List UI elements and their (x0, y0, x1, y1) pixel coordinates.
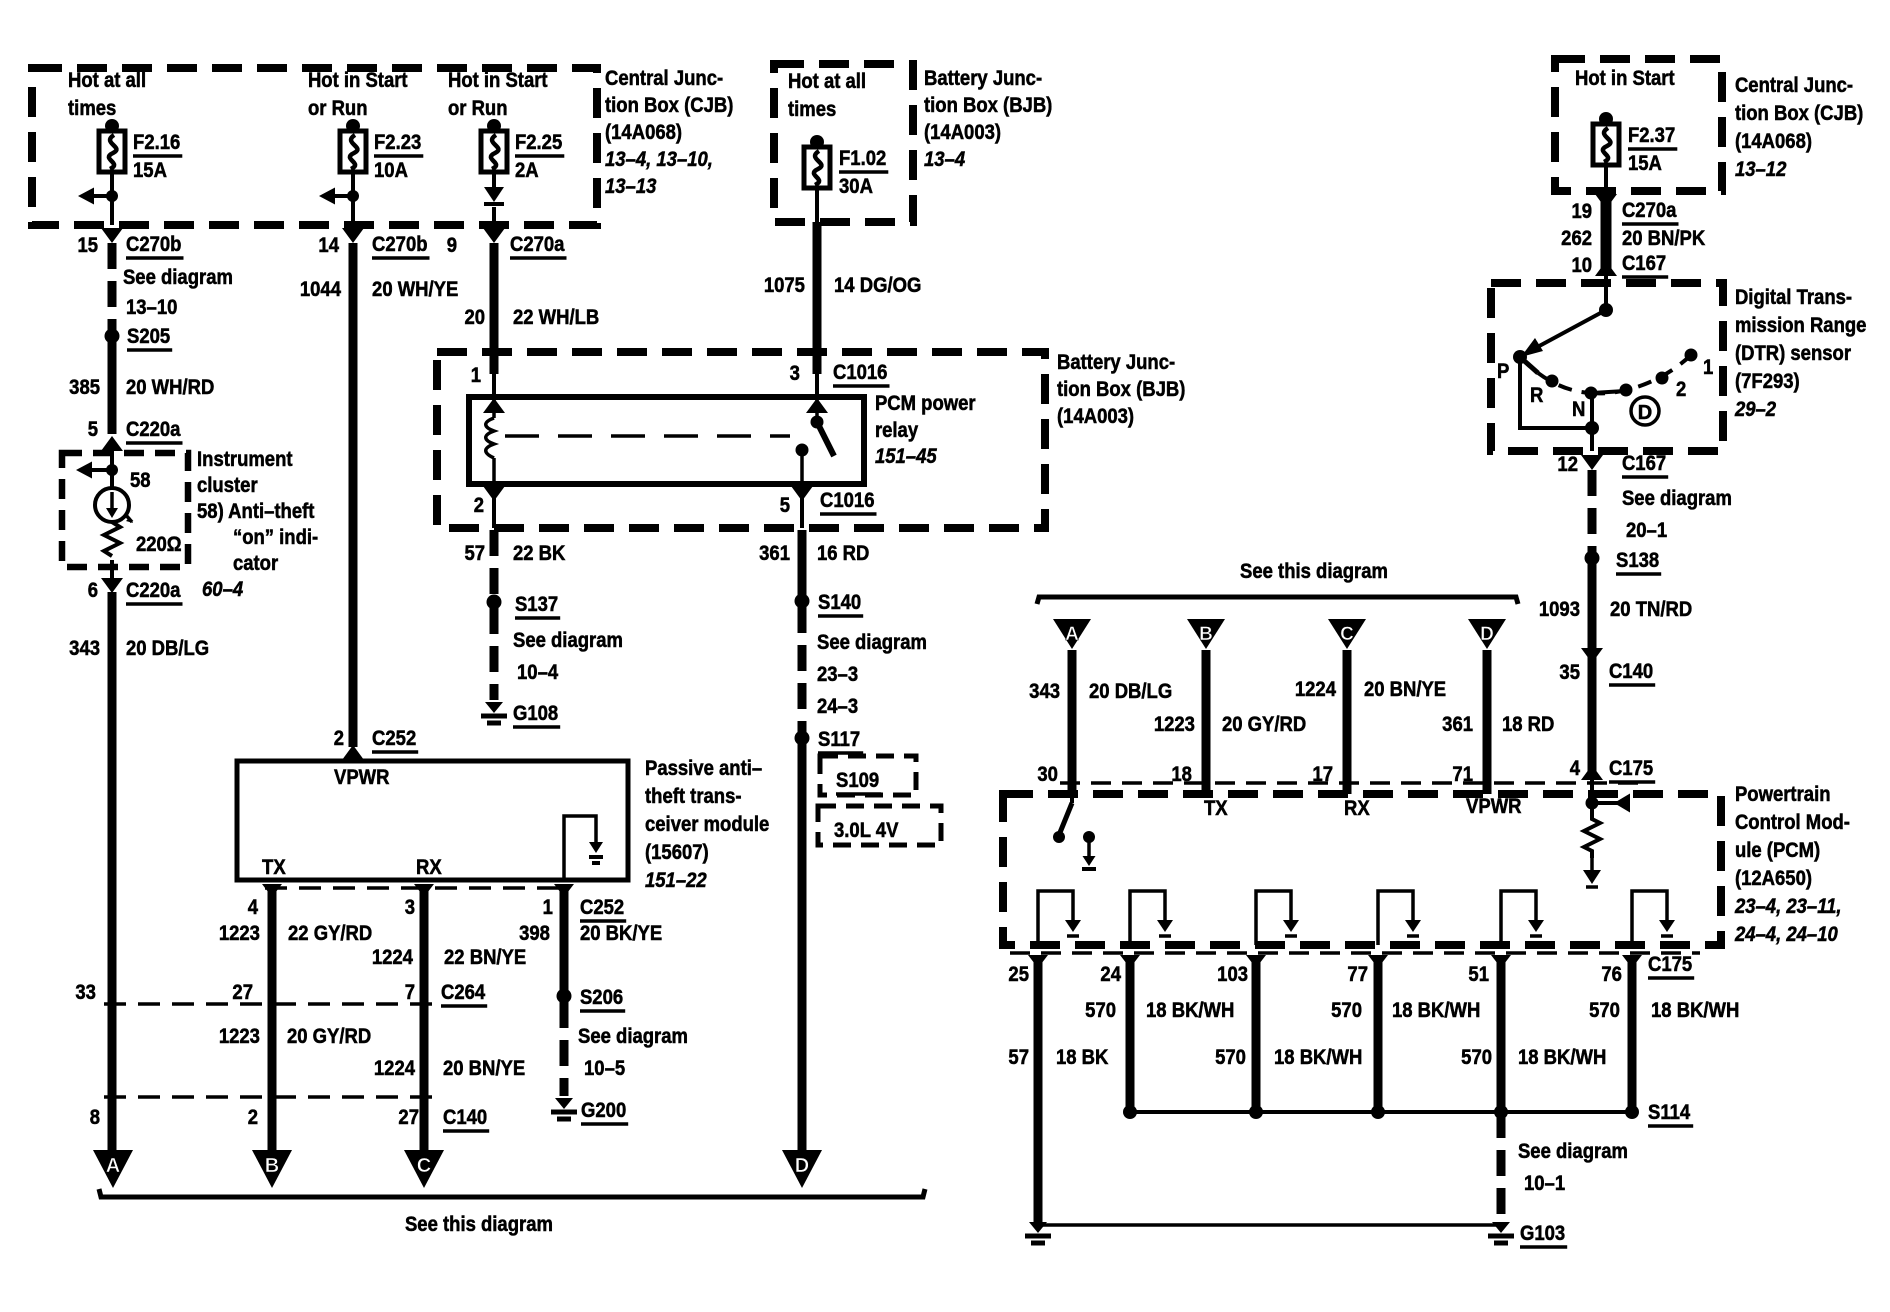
Central Junction Box (CJB) dashed box (32, 68, 597, 225)
wire 262 20 BN/PK: CJB2 to DTR (1601, 196, 1612, 276)
svg-text:(7F293): (7F293) (1735, 370, 1800, 394)
svg-text:20 GY/RD: 20 GY/RD (1222, 713, 1306, 737)
svg-text:77: 77 (1347, 963, 1368, 987)
svg-text:20 TN/RD: 20 TN/RD (1610, 598, 1692, 622)
svg-text:See this diagram: See this diagram (1240, 560, 1388, 584)
svg-text:ceiver module: ceiver module (645, 813, 769, 837)
svg-text:F2.37: F2.37 (1628, 124, 1675, 148)
connector C175 pin 51 (collar) (1491, 955, 1511, 968)
wire 343 20 DB/LG: cluster to net A (108, 592, 117, 1150)
svg-text:Hot in Start: Hot in Start (308, 69, 408, 93)
svg-text:2: 2 (334, 727, 344, 751)
svg-text:1: 1 (543, 896, 553, 920)
svg-text:1: 1 (1703, 356, 1713, 380)
net A (arrow into PCM harness) (1053, 619, 1091, 649)
svg-text:220Ω: 220Ω (136, 533, 182, 557)
wire 57 18 BK: pin 25 to G103 line (1034, 955, 1043, 1222)
svg-text:Hot in Start: Hot in Start (1575, 67, 1675, 91)
PCM power relay box (469, 397, 864, 484)
label: 361 16 RD (759, 542, 869, 566)
svg-text:1075: 1075 (764, 274, 805, 298)
svg-text:570: 570 (1331, 999, 1362, 1023)
svg-text:1224: 1224 (374, 1057, 416, 1081)
svg-text:103: 103 (1217, 963, 1248, 987)
svg-text:S206: S206 (580, 986, 623, 1010)
svg-text:Hot in Start: Hot in Start (448, 69, 548, 93)
connector C270b pin 14 (collar) (342, 228, 364, 243)
DTR selector arc (dashed through contacts) (1520, 357, 1591, 393)
svg-text:262: 262 (1561, 227, 1592, 251)
connector C175 pin 4 (collar) (1581, 765, 1603, 780)
svg-text:13–4, 13–10,: 13–4, 13–10, (605, 148, 713, 172)
label: Powertrain Control Module (PCM) (12A650) 23-4,23-11,24-4,24-10 (1734, 783, 1850, 947)
label: 15 C270b See diagram 13-10 (77, 233, 232, 320)
connector C140 pin 35 (collar) (1581, 648, 1603, 663)
svg-text:20 GY/RD: 20 GY/RD (287, 1025, 371, 1049)
PCM internal resistor ground arrow (1590, 858, 1594, 872)
wire: DTR entry to rotor junction (1604, 276, 1608, 310)
svg-text:3.0L 4V: 3.0L 4V (834, 819, 899, 843)
svg-text:cator: cator (233, 552, 278, 576)
svg-text:4: 4 (248, 896, 259, 920)
diode CR (in CJB) (484, 187, 504, 204)
svg-text:151–45: 151–45 (875, 445, 937, 469)
svg-text:tion Box (CJB): tion Box (CJB) (1735, 102, 1863, 126)
connector C140 dashed line (104, 1095, 436, 1099)
svg-text:D: D (1638, 402, 1652, 424)
label: Digital Transmission Range (DTR) sensor (7F293) 29-2 (1734, 286, 1866, 422)
net C (bottom arrow) (404, 1150, 444, 1188)
wire 361 18 RD: net D to PCM pin 71 (VPWR) (1483, 650, 1492, 794)
splice S205 (105, 329, 120, 344)
svg-text:theft trans-: theft trans- (645, 785, 742, 809)
net B (bottom arrow) (252, 1150, 292, 1188)
svg-text:570: 570 (1589, 999, 1620, 1023)
svg-text:RX: RX (416, 856, 442, 880)
wire: pin 5 into cluster (110, 451, 114, 488)
label: 1075 14 DG/OG (764, 274, 922, 298)
label: See diagram 10-1 (1518, 1140, 1628, 1196)
svg-text:398: 398 (519, 922, 550, 946)
svg-text:1223: 1223 (1154, 713, 1195, 737)
svg-text:Digital Trans-: Digital Trans- (1735, 286, 1852, 310)
relay pin 3 (arrow into relay) + C1016 (806, 398, 828, 413)
3.0L 4V dashed tag box (818, 806, 941, 845)
connector C270a pin 19 (collar) (1595, 194, 1617, 209)
svg-text:9: 9 (447, 234, 457, 258)
Passive anti-theft transceiver module box (237, 761, 628, 880)
svg-text:1224: 1224 (1295, 678, 1337, 702)
svg-text:Instrument: Instrument (197, 448, 293, 472)
label: Battery Junction Box (BJB) (14A003) 13-4 (924, 67, 1052, 172)
svg-text:Central Junc-: Central Junc- (1735, 74, 1853, 98)
label: 398 20 BK/YE (519, 922, 662, 946)
svg-text:C270a: C270a (1622, 199, 1677, 223)
connector C175 pin 76 (collar) (1622, 955, 1642, 968)
svg-text:6: 6 (88, 579, 98, 603)
wire 1224 20 BN/YE: net C to PCM pin 17 (RX) (1343, 650, 1352, 794)
svg-text:C1016: C1016 (833, 361, 887, 385)
label: 1044 20 WH/YE (300, 278, 458, 302)
svg-text:VPWR: VPWR (1466, 795, 1522, 819)
PCM internal ground loop 2 (1130, 891, 1165, 945)
svg-text:30: 30 (1037, 763, 1058, 787)
wire 570 18 BK/WH: pin 77 to S114 (1374, 955, 1383, 1112)
svg-text:3: 3 (405, 896, 415, 920)
splice S137 (487, 595, 502, 610)
svg-text:13–12: 13–12 (1735, 158, 1786, 182)
net D (bottom arrow) (782, 1150, 822, 1188)
svg-text:S140: S140 (818, 591, 861, 615)
connector C175 dashed line over PCM (1060, 781, 1640, 785)
svg-text:mission Range: mission Range (1735, 314, 1866, 338)
svg-text:Passive anti–: Passive anti– (645, 757, 762, 781)
svg-text:22 BN/YE: 22 BN/YE (444, 946, 526, 970)
wire: P contact to common (1520, 357, 1592, 428)
svg-text:S114: S114 (1648, 1101, 1691, 1125)
svg-text:F2.25: F2.25 (515, 131, 562, 155)
DTR contact N (1585, 387, 1598, 400)
PATS internal ground hook (564, 816, 596, 880)
svg-text:22 GY/RD: 22 GY/RD (288, 922, 372, 946)
svg-text:570: 570 (1085, 999, 1116, 1023)
wire: resistor to pin 6 (110, 560, 114, 578)
svg-text:(15607): (15607) (645, 841, 709, 865)
svg-text:18 RD: 18 RD (1502, 713, 1554, 737)
svg-text:C270b: C270b (372, 233, 427, 257)
labels: PCM bottom pins 25 24 103 77 51 76 C175 (1008, 953, 1694, 987)
wire: S117 to net D (798, 738, 807, 1150)
svg-text:4: 4 (1570, 757, 1581, 781)
label: Passive anti-theft transceiver module (15607) 151-22 (645, 757, 769, 893)
svg-text:10–5: 10–5 (584, 1057, 625, 1081)
DTR contact 1 (1685, 349, 1698, 362)
label: 14 C270b (318, 233, 429, 258)
svg-text:C1016: C1016 (820, 489, 874, 513)
wire 1224 22 BN/YE: RX to C264 (420, 884, 429, 1004)
fuse F2.16 15A (99, 119, 182, 182)
label: See diagram 20-1 (1622, 487, 1732, 543)
PCM internal ground loop 1 (1038, 891, 1073, 945)
label: 57 22 BK (464, 542, 565, 566)
label: See diagram 10-4 (513, 629, 623, 685)
svg-text:19: 19 (1571, 200, 1592, 224)
svg-text:10: 10 (1571, 254, 1592, 278)
PCM internal ground stub (1083, 831, 1095, 843)
svg-text:14 DG/OG: 14 DG/OG (834, 274, 921, 298)
svg-text:See diagram: See diagram (817, 631, 927, 655)
svg-text:1224: 1224 (372, 946, 414, 970)
fuse F2.25 2A (481, 119, 564, 182)
svg-text:See diagram: See diagram (513, 629, 623, 653)
wire 1093 20 TN/RD: S138 to C140 (1588, 558, 1597, 660)
label: 343 20 DB/LG (69, 637, 209, 661)
svg-text:R: R (1530, 384, 1544, 408)
ground G103 (1492, 1222, 1510, 1233)
DTR contact P (1513, 350, 1527, 364)
label: PCM power relay 151-45 (875, 392, 976, 469)
wire: F2.37 to CJB2 exit (1604, 165, 1608, 191)
svg-text:(14A068): (14A068) (605, 121, 682, 145)
fuse F2.37 15A (1593, 112, 1677, 175)
PCM internal ground loop 6 (1632, 891, 1667, 945)
connector C175 pin 24 (collar) (1120, 955, 1140, 968)
label: Central Junction Box (CJB) (14A068) 13-12 (1735, 74, 1863, 182)
svg-text:23–4, 23–11,: 23–4, 23–11, (1734, 895, 1841, 919)
svg-text:(14A068): (14A068) (1735, 130, 1812, 154)
svg-text:times: times (788, 98, 836, 122)
svg-text:(14A003): (14A003) (1057, 405, 1134, 429)
svg-text:D: D (795, 1155, 809, 1177)
wire: branch to other circuits (left arrow) (76, 462, 112, 479)
svg-text:(DTR) sensor: (DTR) sensor (1735, 342, 1851, 366)
svg-text:Control Mod-: Control Mod- (1735, 811, 1850, 835)
svg-text:C264: C264 (441, 981, 486, 1005)
svg-text:22 BK: 22 BK (513, 542, 566, 566)
label: 9 C270a (447, 233, 567, 258)
Powertrain Control Module (PCM) dashed box (1003, 794, 1721, 945)
svg-text:relay: relay (875, 419, 919, 443)
svg-text:10–1: 10–1 (1524, 1172, 1565, 1196)
svg-text:10A: 10A (374, 159, 408, 183)
node: DTR rotor pivot (1599, 303, 1613, 317)
labels: PCM top pin numbers 30 18 17 71 (1037, 763, 1473, 787)
label: See diagram 23-3 24-3 (817, 631, 927, 719)
fuse F1.02 30A (804, 135, 888, 198)
node: F2.16 branch junction (106, 190, 118, 202)
wire 343 20 DB/LG: net A to PCM pin 30 (1068, 650, 1077, 794)
connector C167 pin 10 (collar) (1595, 261, 1617, 276)
svg-text:18 BK/WH: 18 BK/WH (1274, 1046, 1362, 1070)
labels: TX RX VPWR inside PCM (1204, 795, 1522, 821)
wire: C140 to net B (268, 1097, 277, 1150)
svg-text:C167: C167 (1622, 252, 1666, 276)
svg-text:20 BN/PK: 20 BN/PK (1622, 227, 1706, 251)
wire: F2.23 to CJB1 exit (351, 172, 355, 225)
DTR contact D (circled) (1620, 384, 1633, 397)
connector C270a pin 9 (collar) (483, 228, 505, 243)
connector C252 pin 3 (collar) (414, 884, 434, 897)
svg-text:18 BK/WH: 18 BK/WH (1651, 999, 1739, 1023)
connector C175 dashed line under PCM (1010, 951, 1700, 955)
svg-text:58: 58 (130, 469, 151, 493)
PCM internal switch blade (pin 30) (1070, 794, 1074, 803)
Battery Junction Box (BJB) top dashed box (774, 64, 913, 222)
svg-text:361: 361 (759, 542, 790, 566)
DTR rotor arm (points at P) (1530, 310, 1606, 351)
splice S206 (557, 989, 572, 1004)
svg-text:See diagram: See diagram (123, 266, 233, 290)
svg-text:TX: TX (262, 856, 286, 880)
connector C252 pin 1 (collar) (554, 884, 574, 897)
relay coil (486, 397, 494, 484)
wire: branch to other circuits (left arrow) (319, 188, 353, 205)
ground G108 (485, 702, 503, 713)
resistor 220ohm (104, 522, 120, 556)
svg-text:2: 2 (474, 494, 484, 518)
svg-text:2A: 2A (515, 159, 539, 183)
net A (bottom arrow) (93, 1150, 133, 1188)
svg-text:D: D (1480, 624, 1494, 645)
svg-text:Hot at all: Hot at all (788, 70, 866, 94)
svg-text:570: 570 (1461, 1046, 1492, 1070)
wire: S140 to S117 (dashed) (798, 607, 807, 732)
svg-text:A: A (106, 1155, 120, 1177)
wire 20 22 WH/LB: CJB1 to PCM power relay pin 1 (490, 243, 499, 374)
fuse F2.23 10A (340, 119, 423, 182)
svg-text:1: 1 (471, 364, 481, 388)
svg-text:57: 57 (464, 542, 485, 566)
svg-text:C140: C140 (443, 1106, 487, 1130)
wire: C140 to net C (420, 1097, 429, 1150)
wire: DTR common to pin 12 (1590, 428, 1594, 451)
svg-text:S117: S117 (818, 728, 860, 752)
svg-text:1044: 1044 (300, 278, 342, 302)
svg-text:570: 570 (1215, 1046, 1246, 1070)
node: cluster branch junction (106, 464, 118, 476)
svg-text:51: 51 (1468, 963, 1489, 987)
svg-text:13–13: 13–13 (605, 175, 656, 199)
wire: diode to CJB1 exit (492, 207, 496, 225)
svg-text:29–2: 29–2 (1734, 398, 1776, 422)
svg-text:A: A (1065, 624, 1079, 645)
DTR contact 2 (1656, 372, 1669, 385)
svg-text:Hot at all: Hot at all (68, 69, 146, 93)
splice S140 (795, 594, 810, 609)
svg-text:12: 12 (1557, 453, 1578, 477)
svg-text:57: 57 (1008, 1046, 1029, 1070)
wire 57 22 BK: relay pin 2 to S137 (dashed) (490, 530, 499, 596)
svg-text:24–3: 24–3 (817, 695, 858, 719)
svg-text:13–10: 13–10 (126, 296, 177, 320)
svg-text:18 BK/WH: 18 BK/WH (1146, 999, 1234, 1023)
svg-text:22 WH/LB: 22 WH/LB (513, 306, 599, 330)
ground tie line to G103 (1038, 1223, 1501, 1227)
label: 20 22 WH/LB (464, 306, 599, 330)
svg-text:14: 14 (318, 234, 339, 258)
label: See diagram 10-5 (578, 1025, 688, 1081)
svg-text:343: 343 (1029, 680, 1060, 704)
svg-text:20 DB/LG: 20 DB/LG (1089, 680, 1172, 704)
svg-text:S138: S138 (1616, 549, 1659, 573)
svg-text:385: 385 (69, 376, 100, 400)
DTR contact R (1546, 375, 1559, 388)
wire: C167 to S138 (dashed) (1588, 470, 1597, 552)
svg-text:C252: C252 (580, 896, 624, 920)
svg-text:58) Anti–theft: 58) Anti–theft (197, 500, 315, 524)
wire: C140 to PCM pin 4 (1588, 660, 1597, 772)
label: Central Junction Box (CJB) (14A068) 13-4,13-10,13-13 (605, 67, 733, 199)
svg-text:60–4: 60–4 (202, 578, 243, 602)
svg-text:Battery Junc-: Battery Junc- (924, 67, 1042, 91)
svg-text:(12A650): (12A650) (1735, 867, 1812, 891)
svg-text:P: P (1497, 360, 1509, 384)
connector C270b pin 15 (collar) (101, 228, 123, 243)
svg-text:18 BK: 18 BK (1056, 1046, 1109, 1070)
label: Battery Junction Box (BJB) (14A003) (1057, 351, 1185, 429)
relay pin 1 (arrow into relay) (483, 398, 505, 413)
bottom bracket: See this diagram (99, 1189, 925, 1197)
svg-text:25: 25 (1008, 963, 1029, 987)
svg-text:S109: S109 (836, 769, 879, 793)
svg-text:G200: G200 (581, 1099, 626, 1123)
wire 1075 14 DG/OG: F1.02 to relay pin 3 (813, 222, 822, 374)
svg-text:C: C (417, 1155, 431, 1177)
net C (arrow into PCM harness) (1328, 619, 1366, 649)
svg-text:20 BK/YE: 20 BK/YE (580, 922, 662, 946)
node: F2.23 branch junction (347, 190, 359, 202)
svg-text:tion Box (CJB): tion Box (CJB) (605, 94, 733, 118)
svg-text:See this diagram: See this diagram (405, 1213, 553, 1237)
Battery Junction Box (BJB) dashed box around relay (437, 352, 1045, 528)
svg-text:76: 76 (1601, 963, 1622, 987)
labels: 33 27 7 C264 (75, 981, 487, 1006)
wire 385 20 WH/RD: S205 to C220a (108, 336, 117, 434)
svg-text:18 BK/WH: 18 BK/WH (1518, 1046, 1606, 1070)
PCM internal ground loop 5 (1501, 891, 1536, 945)
svg-text:VPWR: VPWR (334, 766, 390, 790)
PCM internal ground loop 3 (1256, 891, 1291, 945)
relay pin 5 (exit arrow) + C1016 (800, 484, 804, 528)
svg-text:C175: C175 (1609, 757, 1653, 781)
svg-text:See diagram: See diagram (578, 1025, 688, 1049)
svg-text:7: 7 (405, 981, 415, 1005)
svg-text:F2.23: F2.23 (374, 131, 421, 155)
connector C252 pin 4 (collar) (262, 884, 282, 897)
connector C220a pin 6 (collar) (101, 578, 123, 593)
wire: F1.02 to BJB exit (815, 188, 819, 222)
wire 361 16 RD: relay pin 5 to S140 (798, 530, 807, 596)
svg-text:2: 2 (248, 1106, 258, 1130)
svg-text:5: 5 (88, 418, 98, 442)
wire 1044 20 WH/YE: CJB1 to PATS module (349, 243, 358, 747)
ground G200 (555, 1098, 573, 1109)
svg-text:35: 35 (1559, 661, 1580, 685)
svg-text:B: B (1199, 624, 1213, 645)
wire 570 18 BK/WH: pin 24 to S114 (1126, 955, 1135, 1112)
wire: S137 to G108 (dashed) (490, 608, 499, 700)
splice S117 (795, 731, 810, 746)
svg-text:8: 8 (90, 1106, 100, 1130)
svg-text:C: C (1340, 624, 1354, 645)
connector C252 line under PATS (265, 886, 568, 890)
svg-text:15A: 15A (133, 159, 167, 183)
connector C252 pin 2 (collar) (342, 745, 364, 760)
connector C175 pin 77 (collar) (1368, 955, 1388, 968)
Instrument cluster dashed box (62, 453, 188, 567)
connector C175 pin 103 (collar) (1246, 955, 1266, 968)
svg-text:20 WH/YE: 20 WH/YE (372, 278, 458, 302)
splice dots on S114 bus (1123, 1105, 1137, 1119)
labels: 8 2 27 C140 (90, 1106, 489, 1131)
S109 dashed tag box (820, 756, 916, 795)
svg-text:1223: 1223 (219, 922, 260, 946)
svg-text:Battery Junc-: Battery Junc- (1057, 351, 1175, 375)
connector C264 dashed line (104, 1002, 436, 1006)
svg-text:20–1: 20–1 (1626, 519, 1667, 543)
svg-text:20 BN/YE: 20 BN/YE (1364, 678, 1446, 702)
svg-text:Central Junc-: Central Junc- (605, 67, 723, 91)
svg-text:24: 24 (1100, 963, 1121, 987)
wire: relay pin 3 to switch contact (815, 397, 819, 422)
label: 1224 22 BN/YE (372, 946, 526, 970)
label: 1224 20 BN/YE (374, 1057, 525, 1081)
connector C220a pin 5 (collar) (101, 436, 123, 451)
splice S138 (1585, 551, 1600, 566)
svg-text:C175: C175 (1648, 953, 1692, 977)
svg-text:F2.16: F2.16 (133, 131, 180, 155)
svg-text:3: 3 (790, 362, 800, 386)
